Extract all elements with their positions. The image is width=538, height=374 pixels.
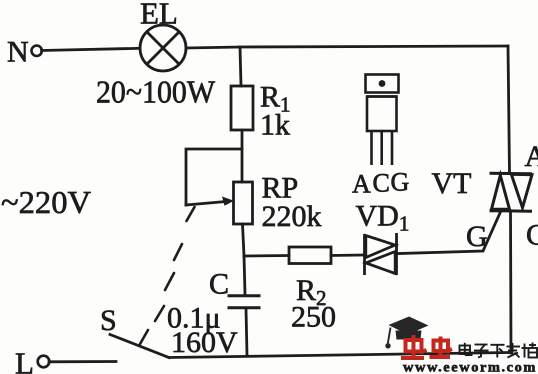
triac VT <box>490 173 533 211</box>
svg-text:A: A <box>525 140 538 173</box>
wire VD1 to gate <box>399 213 501 254</box>
wire RP to node B <box>243 224 245 256</box>
svg-text:C: C <box>209 268 229 301</box>
resistor R1 <box>231 86 253 130</box>
svg-text:20~100W: 20~100W <box>96 74 216 110</box>
lamp EL <box>140 25 186 71</box>
wire rheostat link box <box>186 149 242 205</box>
node L terminal <box>38 356 50 368</box>
svg-text:EL: EL <box>140 0 178 31</box>
svg-text:www.eeworm.com: www.eeworm.com <box>403 361 537 374</box>
svg-text:C: C <box>373 169 390 198</box>
svg-text:G: G <box>466 220 488 253</box>
wire lamp to node A1 <box>186 47 240 48</box>
wire top to right corner <box>240 46 508 47</box>
svg-text:G: G <box>391 168 410 197</box>
RP wiper arrow <box>186 202 226 206</box>
potentiometer RP <box>234 182 253 224</box>
TO-220 package drawing <box>366 75 399 166</box>
wire bottom rail <box>169 353 511 358</box>
wire node A1 down to R1 <box>240 47 241 86</box>
watermark black site name glyphs 电子下载站 <box>460 343 538 358</box>
svg-text:~220V: ~220V <box>1 184 91 220</box>
wire node B to R2 <box>244 254 289 257</box>
watermark graduation cap <box>389 317 429 340</box>
wire capacitor to bottom <box>246 309 247 355</box>
svg-text:1k: 1k <box>260 109 290 142</box>
svg-text:N: N <box>7 36 29 69</box>
switch S blade <box>110 335 169 358</box>
wire right vertical to triac <box>508 46 510 173</box>
wire R1 to RP <box>241 130 244 182</box>
watermark chongchong red characters <box>401 335 452 358</box>
mechanical link dashed line <box>140 207 195 344</box>
wire triac to bottom rail <box>509 211 512 353</box>
svg-text:L: L <box>15 346 34 374</box>
svg-text:160V: 160V <box>171 326 238 359</box>
svg-text:220k: 220k <box>262 200 322 233</box>
svg-text:S: S <box>100 304 117 337</box>
capacitor C plates <box>229 294 259 297</box>
wire R2 to VD1 <box>331 254 363 257</box>
node N terminal <box>32 46 42 56</box>
wire L to switch <box>49 360 116 363</box>
diac VD1 <box>365 233 397 275</box>
svg-text:A: A <box>352 170 371 199</box>
resistor R2 <box>289 247 331 264</box>
svg-text:C: C <box>526 219 538 252</box>
wire node B to capacitor <box>244 256 245 294</box>
wire N to lamp <box>42 48 141 50</box>
svg-text:250: 250 <box>291 301 336 334</box>
svg-text:VT: VT <box>432 167 472 200</box>
RP arrowhead <box>222 197 234 206</box>
